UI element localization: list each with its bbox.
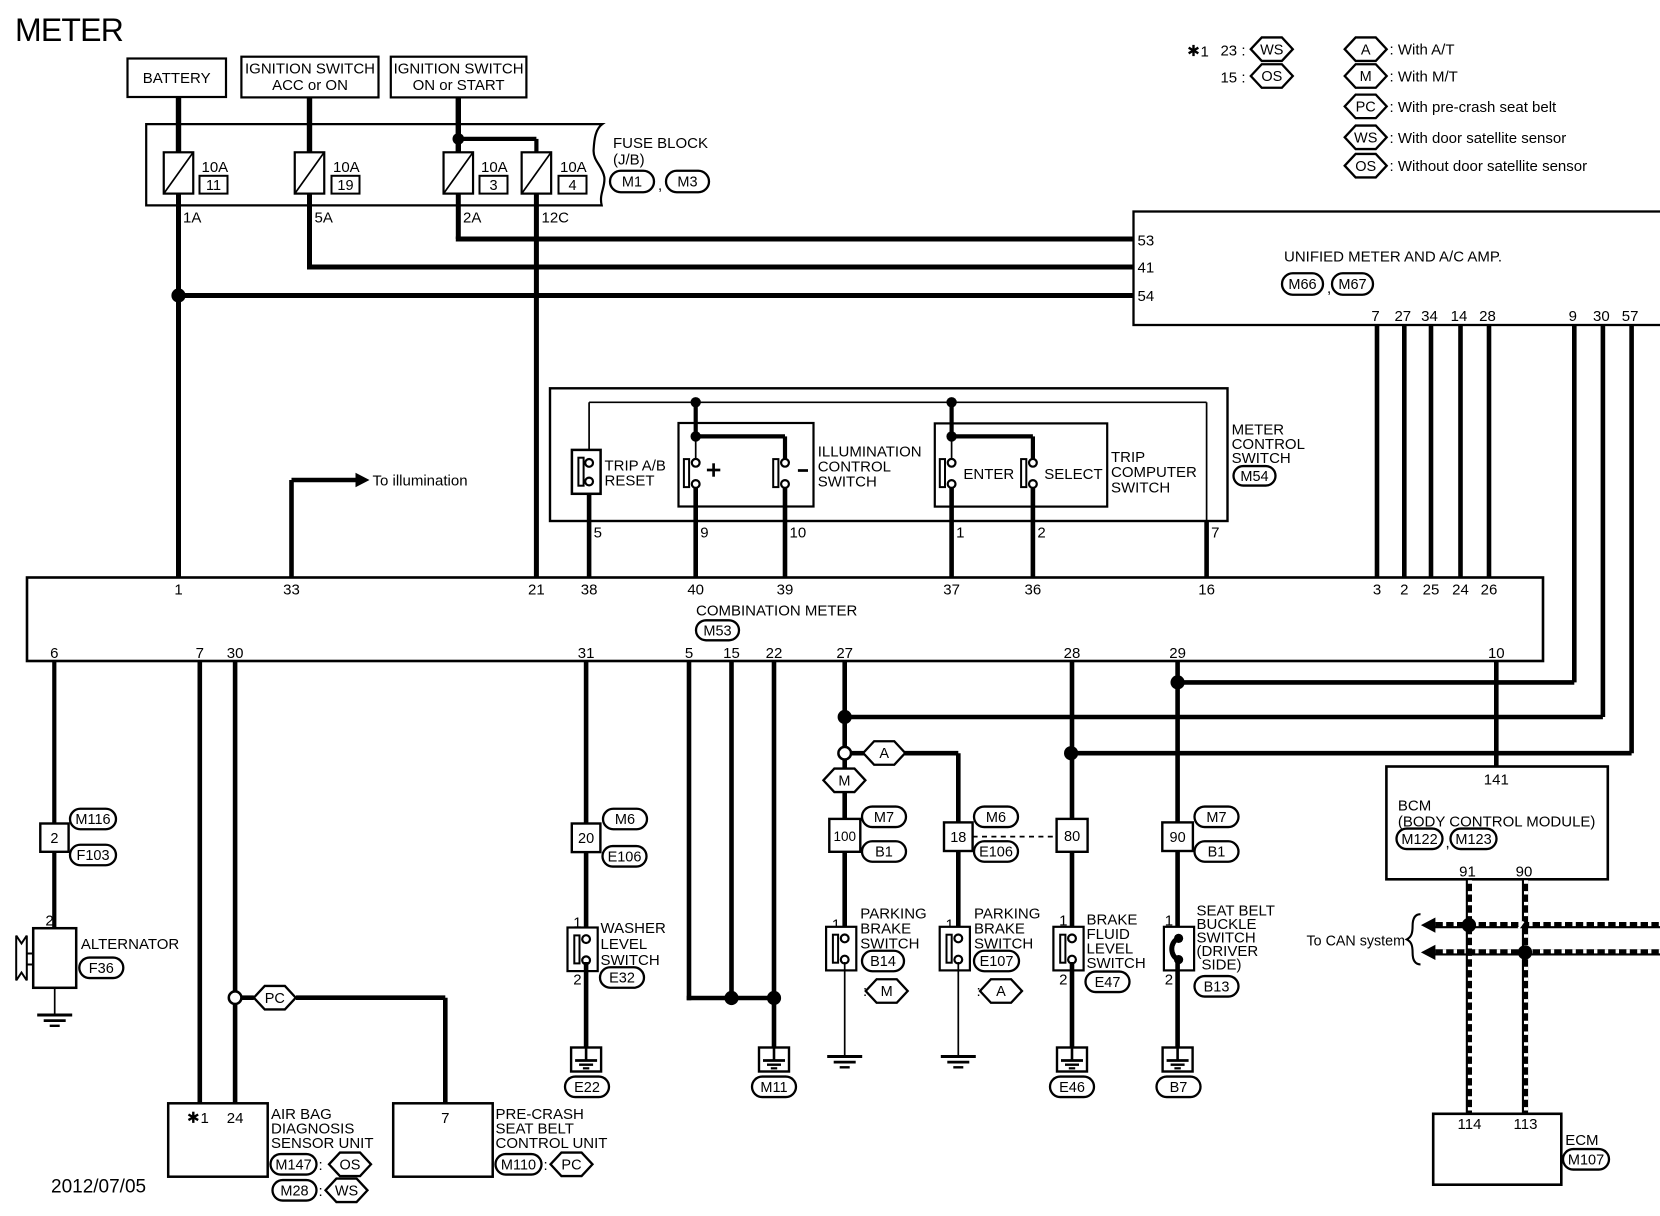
svg-text:20: 20 xyxy=(578,831,594,847)
svg-text:SWITCH: SWITCH xyxy=(818,474,877,491)
svg-text:10: 10 xyxy=(1488,645,1505,662)
connector M53 xyxy=(696,620,739,640)
connector E107 xyxy=(974,951,1019,972)
svg-text::: : xyxy=(319,1157,323,1174)
svg-text:WASHER: WASHER xyxy=(601,920,666,937)
svg-text:IGNITION SWITCH: IGNITION SWITCH xyxy=(245,61,375,78)
connector box 100 (M7/B1) xyxy=(829,819,860,852)
svg-text:15 :: 15 : xyxy=(1220,69,1245,86)
svg-text:34: 34 xyxy=(1421,308,1438,325)
svg-text:LEVEL: LEVEL xyxy=(601,936,648,953)
svg-text:22: 22 xyxy=(766,645,783,662)
connector box 80 xyxy=(1057,819,1088,852)
svg-text:M123: M123 xyxy=(1455,832,1491,848)
legend hexagon OS xyxy=(1345,154,1387,178)
combination meter box xyxy=(27,578,1543,662)
svg-text:1A: 1A xyxy=(183,210,201,227)
pre-crash seat belt control unit box xyxy=(393,1103,493,1176)
connector box 2 (M116/F103) xyxy=(40,824,68,852)
connector box 90 (M7/B1) xyxy=(1162,822,1193,851)
svg-text:E106: E106 xyxy=(608,850,642,866)
wire pin 5 to meter pin 38 xyxy=(587,485,592,579)
connector E47 xyxy=(1086,972,1130,993)
trip computer switch box xyxy=(935,423,1107,506)
svg-text:OS: OS xyxy=(340,1158,361,1174)
connector M7 (90) xyxy=(1195,807,1239,828)
connector M116 xyxy=(70,809,116,830)
svg-text:E106: E106 xyxy=(979,845,1013,861)
svg-text:100: 100 xyxy=(834,829,857,844)
svg-text:9: 9 xyxy=(700,525,708,542)
hexagon OS legend row2 xyxy=(1251,64,1293,88)
unified meter and A/C amp box xyxy=(1134,212,1660,326)
wire 5A to unified meter pin 41 xyxy=(307,194,312,267)
wire unified pin 7 down xyxy=(1375,325,1380,579)
svg-text:E46: E46 xyxy=(1059,1080,1085,1096)
svg-text:FUSE BLOCK: FUSE BLOCK xyxy=(613,135,708,152)
svg-text:10: 10 xyxy=(790,525,807,542)
junction inside illumination box xyxy=(691,431,701,441)
svg-text:M11: M11 xyxy=(760,1080,787,1096)
wire unified pin 57 to combination meter pin 28 branch xyxy=(1629,325,1634,753)
wire meter pin 30 to airbag 24 xyxy=(233,661,238,1103)
BCM box xyxy=(1386,767,1607,880)
svg-text:5A: 5A xyxy=(315,210,333,227)
ground box M11 xyxy=(759,1048,789,1072)
wire meter pin 10 to BCM 141 xyxy=(1494,661,1499,767)
brake fluid level switch symbol xyxy=(1053,927,1083,971)
connector B7 xyxy=(1157,1077,1201,1098)
battery box xyxy=(128,59,227,98)
svg-text:21: 21 xyxy=(528,582,545,599)
svg-text:10A: 10A xyxy=(560,159,587,176)
legend *1 xyxy=(1189,45,1199,56)
junction bus/illumination xyxy=(691,397,701,407)
svg-text:29: 29 xyxy=(1169,645,1186,662)
connector M110 xyxy=(496,1154,542,1175)
svg-text:27: 27 xyxy=(836,645,853,662)
svg-text:5: 5 xyxy=(685,645,693,662)
wire meter pin 15 down xyxy=(729,661,734,1000)
fuse block (J/B) outline xyxy=(146,124,604,205)
junction pin 28 / unified pin 57 xyxy=(1064,746,1078,760)
svg-text:M6: M6 xyxy=(986,810,1006,826)
svg-text:B1: B1 xyxy=(875,845,893,861)
svg-text:28: 28 xyxy=(1064,645,1081,662)
connector F36 xyxy=(79,958,123,979)
wire pin 10 to meter pin 39 xyxy=(783,485,788,579)
svg-text:19: 19 xyxy=(337,178,353,194)
parking brake switch 1 ground wire xyxy=(844,962,846,1055)
svg-text:SENSOR UNIT: SENSOR UNIT xyxy=(271,1135,374,1152)
connector M6 xyxy=(603,809,647,830)
hexagon OS (M147) xyxy=(329,1153,371,1177)
fuse 10A 3 xyxy=(444,152,508,194)
wire junction to plus switch xyxy=(695,436,697,459)
svg-text:B13: B13 xyxy=(1204,980,1230,996)
svg-text:90: 90 xyxy=(1170,830,1186,846)
svg-text:B7: B7 xyxy=(1170,1080,1188,1096)
svg-text:38: 38 xyxy=(581,582,598,599)
wire to A hexagon branch xyxy=(851,751,866,756)
ground below B14 xyxy=(827,1057,862,1068)
svg-text:31: 31 xyxy=(578,645,595,662)
dashed link connector 18 to 80 xyxy=(973,836,1057,838)
svg-text:OS: OS xyxy=(1261,69,1282,85)
svg-text:WS: WS xyxy=(335,1184,358,1200)
svg-text:1: 1 xyxy=(1201,44,1209,61)
svg-text::: : xyxy=(319,1183,323,1200)
svg-text:37: 37 xyxy=(943,582,960,599)
wire trip junction to select switch xyxy=(952,434,1033,438)
airbag pin *1 label xyxy=(188,1112,198,1123)
connector split circle on pin 27 wire xyxy=(838,747,851,760)
connector box 18 (M6/E106) xyxy=(944,822,973,851)
svg-text:M1: M1 xyxy=(622,175,642,191)
svg-text:1: 1 xyxy=(174,582,182,599)
CAN wire BCM pin 90 to ECM pin 113 xyxy=(1522,879,1528,1114)
svg-text:28: 28 xyxy=(1479,308,1496,325)
wire meter pin 28 down xyxy=(1070,661,1075,940)
internal bus wire xyxy=(589,401,1207,403)
svg-text:M67: M67 xyxy=(1338,277,1366,293)
svg-text:CONTROL UNIT: CONTROL UNIT xyxy=(496,1135,608,1152)
hexagon WS legend row1 xyxy=(1251,37,1293,61)
svg-text:B1: B1 xyxy=(1208,845,1226,861)
wire unified pin 14 down xyxy=(1458,325,1463,579)
svg-text:: With door satellite sensor: : With door satellite sensor xyxy=(1390,130,1567,147)
connector M3 xyxy=(666,171,709,193)
ground box E22 xyxy=(571,1048,601,1072)
svg-text:9: 9 xyxy=(1569,308,1577,325)
svg-text:2: 2 xyxy=(573,972,581,989)
connector M11 xyxy=(752,1077,796,1098)
svg-text:SWITCH: SWITCH xyxy=(1087,955,1146,972)
svg-text:WS: WS xyxy=(1260,42,1283,58)
wire to alternator xyxy=(52,852,56,928)
svg-text:M66: M66 xyxy=(1288,277,1316,293)
washer level switch symbol xyxy=(568,928,598,972)
svg-text:2: 2 xyxy=(1059,972,1067,989)
connector M66 xyxy=(1282,273,1323,295)
svg-text:WS: WS xyxy=(1354,131,1377,147)
svg-text:(J/B): (J/B) xyxy=(613,151,645,168)
svg-text:54: 54 xyxy=(1138,288,1155,305)
svg-text:16: 16 xyxy=(1198,582,1215,599)
svg-text:: With A/T: : With A/T xyxy=(1390,42,1455,59)
svg-text:ACC or ON: ACC or ON xyxy=(272,77,348,94)
svg-text:23 :: 23 : xyxy=(1220,43,1245,60)
wire meter pin 29 down xyxy=(1175,661,1180,940)
svg-text:METER: METER xyxy=(15,12,123,48)
wire battery to fuse 11 xyxy=(176,97,181,153)
svg-text:SIDE): SIDE) xyxy=(1202,957,1242,974)
wire seat belt switch to ground xyxy=(1175,962,1180,1048)
fuse 10A 19 xyxy=(295,152,360,194)
ignition switch ACC or ON box xyxy=(241,57,378,98)
svg-text:ENTER: ENTER xyxy=(963,466,1014,483)
svg-text:90: 90 xyxy=(1516,864,1533,881)
alternator pulley symbol xyxy=(16,936,27,981)
wire brake fluid switch to ground xyxy=(1070,962,1075,1048)
hexagon M on pin 27 wire xyxy=(823,769,865,793)
CAN crossing hop xyxy=(1519,922,1524,929)
parking brake switch 2 ground wire xyxy=(957,962,959,1055)
connector M7 xyxy=(862,807,906,828)
illumination - switch xyxy=(773,459,789,488)
svg-text:53: 53 xyxy=(1138,232,1155,249)
svg-text:M3: M3 xyxy=(677,175,697,191)
svg-text:SWITCH: SWITCH xyxy=(1111,479,1170,496)
CAN brace xyxy=(1407,914,1421,964)
svg-text:113: 113 xyxy=(1514,1116,1538,1133)
svg-text:2: 2 xyxy=(1037,525,1045,542)
svg-text:,: , xyxy=(1446,835,1450,852)
svg-text:26: 26 xyxy=(1481,582,1498,599)
CAN junction pin 91 xyxy=(1462,918,1476,932)
svg-text:PC: PC xyxy=(1356,100,1376,116)
svg-text:A: A xyxy=(996,984,1006,1000)
fuse 10A 4 xyxy=(522,152,587,194)
svg-text:30: 30 xyxy=(227,645,244,662)
wire 2A to unified meter pin 53 xyxy=(456,194,461,239)
svg-text:7: 7 xyxy=(1211,525,1219,542)
connector M6 (18) xyxy=(974,807,1018,828)
svg-text:80: 80 xyxy=(1064,829,1080,845)
svg-text:5: 5 xyxy=(594,525,602,542)
junction inside trip computer box xyxy=(946,431,956,441)
svg-text:ECM: ECM xyxy=(1565,1132,1598,1149)
svg-text:A: A xyxy=(879,746,889,762)
connector box 20 (M6/E106) xyxy=(572,824,601,853)
wire bus to trip computer junction xyxy=(949,402,953,436)
connector M147 xyxy=(271,1154,317,1175)
CAN line H to CAN system xyxy=(1429,922,1660,928)
svg-text:10A: 10A xyxy=(333,159,360,176)
svg-text:1: 1 xyxy=(956,525,964,542)
svg-text:M7: M7 xyxy=(874,810,894,826)
svg-text:E22: E22 xyxy=(574,1080,600,1096)
junction pin 29 / unified pin 9 xyxy=(1171,675,1185,689)
hexagon PC branch xyxy=(254,986,296,1010)
hexagon A (E107) xyxy=(980,979,1022,1003)
svg-text:M116: M116 xyxy=(75,812,110,828)
svg-text:10A: 10A xyxy=(202,159,229,176)
svg-text:57: 57 xyxy=(1622,308,1639,325)
svg-text:40: 40 xyxy=(687,582,704,599)
svg-text:PC: PC xyxy=(265,991,285,1007)
svg-text:M: M xyxy=(838,774,850,790)
wire to illumination xyxy=(289,480,294,579)
legend hexagon A xyxy=(1345,37,1387,61)
wire PC branch to pre-crash unit xyxy=(241,995,254,1000)
svg-text:2012/07/05: 2012/07/05 xyxy=(51,1177,146,1198)
trip A/B reset switch xyxy=(572,450,601,494)
wire meter pin 5 down xyxy=(687,661,692,1000)
parking brake switch symbol (E107) xyxy=(940,927,970,971)
svg-text:6: 6 xyxy=(50,645,58,662)
svg-text:E47: E47 xyxy=(1095,975,1121,991)
svg-text:91: 91 xyxy=(1459,864,1476,881)
CAN junction pin 90 xyxy=(1518,945,1532,959)
alternator box xyxy=(33,928,76,988)
illumination + switch xyxy=(684,459,700,488)
svg-text:M28: M28 xyxy=(280,1184,308,1200)
svg-text:M54: M54 xyxy=(1240,469,1268,485)
air bag diagnosis sensor unit box xyxy=(168,1103,268,1176)
wire 12C down to combination meter pin 21 xyxy=(534,194,539,579)
svg-text:2: 2 xyxy=(1400,582,1408,599)
connector E32 xyxy=(600,967,644,988)
wire unified pin 27 down xyxy=(1402,325,1407,579)
ignition switch ON or START box xyxy=(391,57,527,98)
CAN line L to CAN system xyxy=(1429,949,1660,955)
alternator ground xyxy=(37,1015,72,1026)
svg-text:M7: M7 xyxy=(1206,810,1226,826)
connector F103 xyxy=(70,845,116,866)
wire meter pin 22 to ground xyxy=(772,661,777,1048)
wire illumination junction to minus switch xyxy=(696,434,785,438)
junction pin 15 xyxy=(724,991,738,1005)
connector E106 (18) xyxy=(974,841,1018,862)
svg-text:12C: 12C xyxy=(542,210,570,227)
svg-text:SWITCH: SWITCH xyxy=(1232,450,1291,467)
svg-text:27: 27 xyxy=(1394,308,1411,325)
svg-text:: With pre-crash seat belt: : With pre-crash seat belt xyxy=(1390,99,1558,116)
wire to washer level switch xyxy=(584,852,589,940)
wire ON/START to fuse 3 xyxy=(456,97,461,153)
wire unified pin 9 to combination meter pin 29 branch xyxy=(1572,325,1577,682)
svg-text:M: M xyxy=(881,984,893,1000)
svg-text:7: 7 xyxy=(1371,308,1379,325)
wire trip A/B reset to bus xyxy=(588,402,590,459)
wire pin 7 to meter pin 16 xyxy=(1204,521,1209,579)
connector E22 xyxy=(565,1077,609,1098)
wire meter pin 31 down xyxy=(584,661,589,824)
wire meter pin 6 down xyxy=(52,661,56,824)
CAN arrow 1 xyxy=(1421,918,1436,933)
connector M54 xyxy=(1234,466,1276,486)
svg-text:24: 24 xyxy=(227,1110,244,1127)
CAN arrow 2 xyxy=(1421,945,1436,960)
ENTER switch xyxy=(940,459,956,488)
connector M1 xyxy=(610,171,654,193)
svg-text:7: 7 xyxy=(441,1110,449,1127)
junction on 1A wire xyxy=(171,288,185,302)
wire meter pin 27 down xyxy=(842,661,847,940)
svg-text:ON or START: ON or START xyxy=(413,77,505,94)
hexagon A branch xyxy=(863,741,905,765)
hexagon PC (M110) xyxy=(551,1153,593,1177)
ground box B7 xyxy=(1163,1048,1193,1072)
SELECT switch xyxy=(1021,459,1037,488)
alternator ground wire xyxy=(54,988,56,1015)
wire ACC to fuse 19 xyxy=(307,97,312,153)
plus sign xyxy=(707,469,720,472)
svg-text:3: 3 xyxy=(1373,582,1381,599)
illumination control switch box xyxy=(679,423,814,507)
connector B13 xyxy=(1195,976,1239,997)
svg-text:,: , xyxy=(1327,280,1331,297)
svg-text:25: 25 xyxy=(1423,582,1440,599)
svg-text:COMBINATION METER: COMBINATION METER xyxy=(696,602,858,619)
connector E106 xyxy=(603,846,647,867)
svg-text:1: 1 xyxy=(201,1110,209,1127)
hexagon M (B14) xyxy=(866,979,908,1003)
svg-text:: Without door satellite senso: : Without door satellite sensor xyxy=(1390,158,1588,175)
connector B14 xyxy=(862,951,904,972)
hexagon WS (M28) xyxy=(326,1179,368,1203)
junction on ON/START wire xyxy=(453,133,465,145)
svg-text:30: 30 xyxy=(1593,308,1610,325)
svg-text:F103: F103 xyxy=(76,848,109,864)
junction bus/trip computer xyxy=(946,397,956,407)
wire bus to illumination junction xyxy=(694,402,698,436)
svg-text:RESET: RESET xyxy=(605,473,655,490)
svg-text:15: 15 xyxy=(723,645,740,662)
junction pin 27 / unified pin 30 xyxy=(838,710,852,724)
svg-text:PC: PC xyxy=(561,1158,581,1174)
svg-text::: : xyxy=(544,1157,548,1174)
svg-text:M53: M53 xyxy=(703,624,731,640)
svg-text:BCM: BCM xyxy=(1398,798,1431,815)
legend hexagon PC xyxy=(1345,95,1387,119)
svg-text:41: 41 xyxy=(1138,259,1155,276)
svg-text:,: , xyxy=(658,177,662,194)
minus sign xyxy=(798,469,808,472)
ground merge wire xyxy=(687,996,774,1001)
to illumination arrow xyxy=(356,473,370,487)
wire meter pin 7 to airbag *1 xyxy=(198,661,203,1103)
junction pin 22 xyxy=(767,991,781,1005)
seat belt buckle switch symbol xyxy=(1164,927,1194,971)
svg-text:UNIFIED METER AND A/C AMP.: UNIFIED METER AND A/C AMP. xyxy=(1284,249,1502,266)
meter control switch M54 outer box xyxy=(550,388,1228,521)
CAN wire BCM pin 91 to ECM pin 114 xyxy=(1466,879,1472,1114)
connector M123 xyxy=(1451,829,1497,850)
connector B1 xyxy=(862,841,906,862)
svg-text:M: M xyxy=(1360,69,1372,85)
svg-text:2: 2 xyxy=(1165,972,1173,989)
ground box E46 xyxy=(1057,1048,1087,1072)
svg-text:2: 2 xyxy=(50,831,58,847)
svg-text:3: 3 xyxy=(489,178,497,194)
svg-text:2A: 2A xyxy=(463,210,481,227)
svg-text:14: 14 xyxy=(1451,308,1468,325)
svg-text:36: 36 xyxy=(1025,582,1042,599)
svg-text:IGNITION SWITCH: IGNITION SWITCH xyxy=(394,61,524,78)
svg-text:18: 18 xyxy=(950,830,966,846)
connector M107 xyxy=(1563,1149,1609,1170)
svg-text:39: 39 xyxy=(777,582,794,599)
svg-text:4: 4 xyxy=(568,178,576,194)
svg-text:F36: F36 xyxy=(89,961,114,977)
wire branch to fuse 4 xyxy=(458,137,536,141)
legend hexagon M xyxy=(1345,64,1387,88)
svg-text:BATTERY: BATTERY xyxy=(143,70,211,87)
wire pin 2 to meter pin 36 xyxy=(1031,485,1036,579)
svg-text:11: 11 xyxy=(206,178,221,194)
wire unified pin 30 to combination meter pin 27 branch xyxy=(1601,325,1606,717)
connector M28 xyxy=(273,1180,317,1201)
svg-text:OS: OS xyxy=(1355,159,1376,175)
svg-text:141: 141 xyxy=(1484,772,1509,789)
svg-text:M107: M107 xyxy=(1568,1153,1604,1169)
svg-text:7: 7 xyxy=(196,645,204,662)
fuse 10A 11 xyxy=(164,152,228,194)
wire pin 9 to meter pin 40 xyxy=(693,485,698,579)
connector E46 xyxy=(1050,1077,1094,1098)
